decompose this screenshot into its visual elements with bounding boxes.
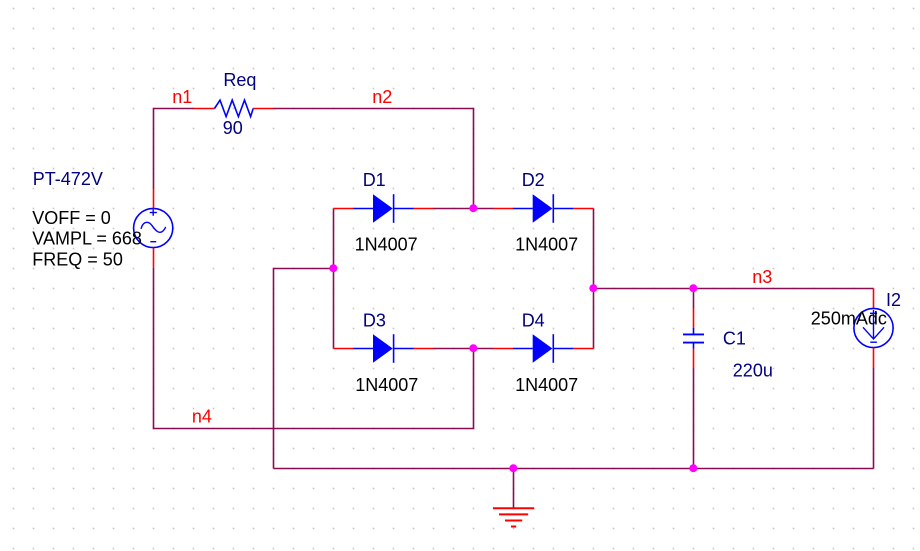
svg-text:D3: D3 <box>363 310 386 330</box>
resistor Req <box>215 100 254 117</box>
svg-text:D2: D2 <box>522 170 545 190</box>
capacitor C1 <box>683 308 704 369</box>
pin stub resistor R right <box>253 108 273 110</box>
svg-text:VAMPL = 668: VAMPL = 668 <box>32 228 142 248</box>
svg-text:n3: n3 <box>752 267 772 287</box>
junction D3/D4/n4 <box>469 344 477 352</box>
wire C1 bottom to bottom rail <box>693 369 695 469</box>
pin stub I2 bottom <box>873 348 875 368</box>
junction n3/C1 <box>689 284 697 292</box>
svg-text:PT-472V: PT-472V <box>33 169 103 189</box>
svg-text:VOFF = 0: VOFF = 0 <box>32 208 111 228</box>
wire bottom ground rail <box>274 468 874 470</box>
pin stub V1 top <box>153 189 155 209</box>
current source I2 <box>854 308 893 347</box>
junction n2/D1/D2 <box>469 204 477 212</box>
svg-text:I2: I2 <box>886 290 901 310</box>
svg-text:n1: n1 <box>172 87 192 107</box>
svg-text:1N4007: 1N4007 <box>515 235 578 255</box>
wire n1 vertical from source top to top rail <box>154 109 195 189</box>
wire n2 top rail to middle column <box>274 109 474 209</box>
voltage source V1 PT-472V <box>134 208 173 247</box>
wire right bridge column <box>593 209 595 349</box>
wire lower middle junction to D4 anode <box>474 348 494 350</box>
junction ground tap <box>509 464 517 472</box>
junction at left bridge node <box>329 264 337 272</box>
ground symbol 0 <box>493 508 534 526</box>
svg-text:n4: n4 <box>192 407 212 427</box>
svg-text:Req: Req <box>223 70 256 90</box>
junction n3 at right column <box>589 284 597 292</box>
diode D2 <box>493 194 594 223</box>
wire from left column to bottom rail branch <box>274 269 334 469</box>
diode D1 <box>334 194 434 223</box>
svg-text:1N4007: 1N4007 <box>515 375 578 395</box>
svg-text:D1: D1 <box>363 170 386 190</box>
pin stub resistor R left <box>194 108 215 110</box>
svg-text:D4: D4 <box>522 310 545 330</box>
svg-text:250mAdc: 250mAdc <box>811 309 887 329</box>
svg-text:n2: n2 <box>372 87 392 107</box>
svg-text:C1: C1 <box>723 328 746 348</box>
wire ground drop <box>513 469 515 509</box>
diode D4 <box>493 334 594 363</box>
pin stub V1 bottom <box>153 248 155 268</box>
svg-text:90: 90 <box>223 118 243 138</box>
wire middle junction to D2 anode <box>474 208 494 210</box>
wire n3 rail <box>594 288 874 290</box>
junction C1 bottom <box>689 464 697 472</box>
svg-text:220u: 220u <box>733 360 773 380</box>
wire n3 corner down to I2 pin <box>873 289 875 309</box>
diode D3 <box>334 334 434 363</box>
wire D3 cathode to lower middle junction <box>434 348 474 350</box>
wire C1 top connection <box>693 289 695 309</box>
wire D1 cathode to middle junction <box>434 208 474 210</box>
svg-text:1N4007: 1N4007 <box>355 235 418 255</box>
wire I2 bottom to bottom rail <box>873 368 875 469</box>
wire n4 from source bottom down and right <box>154 268 474 429</box>
svg-text:1N4007: 1N4007 <box>355 375 418 395</box>
svg-text:FREQ = 50: FREQ = 50 <box>32 249 123 269</box>
wire left bridge column <box>333 209 335 349</box>
